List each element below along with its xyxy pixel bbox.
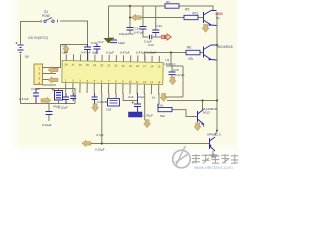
- svg-text:LM4610: LM4610: [164, 62, 176, 66]
- svg-text:R5: R5: [185, 8, 189, 12]
- svg-text:3µF: 3µF: [92, 51, 98, 55]
- schematic sheet background: [8, 0, 237, 154]
- capacitor C17: [94, 44, 101, 55]
- series capacitor y37: [150, 35, 152, 39]
- wire loop top: [166, 65, 183, 67]
- wire loop right: [182, 66, 184, 97]
- svg-text:0.1µF: 0.1µF: [106, 51, 114, 55]
- svg-text:C16: C16: [128, 95, 134, 99]
- svg-text:0.022B: 0.022B: [97, 100, 107, 104]
- wire P1 pin4: [43, 84, 57, 86]
- svg-text:4.47µF: 4.47µF: [81, 51, 91, 55]
- svg-text:R14: R14: [157, 104, 163, 108]
- port arrow IN1: [48, 67, 58, 73]
- svg-text:C17: C17: [98, 40, 104, 44]
- transistor Q3: [198, 110, 204, 125]
- wire Q3 emitter down: [203, 124, 205, 127]
- svg-text:1.47µF: 1.47µF: [19, 97, 29, 101]
- port arrow on mid rail: [132, 14, 142, 20]
- resistor R6: [186, 50, 200, 55]
- plus mark C2: [52, 88, 55, 91]
- node B junction: [170, 51, 172, 53]
- wire C14a lower lead: [129, 30, 131, 33]
- svg-text:0.47µF: 0.47µF: [120, 51, 130, 55]
- svg-text:C12: C12: [157, 24, 163, 28]
- port arrow bottom-left: [41, 97, 51, 103]
- wire P1 pin3: [43, 79, 59, 81]
- svg-text:47k: 47k: [188, 57, 194, 61]
- ground wing above IC: [104, 38, 114, 44]
- capacitor C18: [169, 72, 176, 75]
- wire row y37 left: [143, 29, 149, 37]
- junction rail row2: [216, 44, 218, 46]
- capacitor C4b: [70, 93, 76, 101]
- wire mid rail y17.5: [130, 17, 184, 19]
- wire node B down: [170, 53, 172, 67]
- svg-text:51k: 51k: [160, 114, 165, 118]
- capacitor C3: [46, 112, 53, 115]
- wire power drop x108: [108, 6, 110, 38]
- svg-text:0.47µF: 0.47µF: [175, 73, 185, 77]
- wire row2 pin12 to R6: [145, 52, 186, 54]
- capacitor C5: [92, 93, 98, 104]
- wire drop x143: [142, 6, 144, 27]
- capacitor C14a: [127, 28, 134, 31]
- svg-text:9A: 9A: [216, 16, 220, 20]
- svg-text:C10: C10: [91, 41, 97, 45]
- svg-text:47Ω: 47Ω: [192, 12, 199, 16]
- svg-text:1µF: 1µF: [62, 51, 68, 55]
- resistor R5: [184, 15, 198, 19]
- junction rail bottom: [216, 130, 218, 132]
- svg-text:0.47µF 0.22µF: 0.47µF 0.22µF: [136, 51, 156, 55]
- wire C2 bottom lead: [58, 100, 60, 104]
- svg-text:0.22µF: 0.22µF: [42, 123, 52, 127]
- wire switch to pin25 drop: [60, 21, 88, 44]
- wire right rail: [215, 12, 217, 135]
- IC pin stubs top: [66, 54, 159, 62]
- wire C18 lower lead: [171, 76, 173, 79]
- wire C12 lower lead: [155, 33, 157, 38]
- capacitor C1 bottom-left: [33, 89, 39, 104]
- port arrow up at pin28 net: [63, 45, 70, 53]
- junction rail x130: [129, 5, 131, 7]
- wire bottom-left loop top: [36, 89, 75, 104]
- resistor R14: [158, 108, 172, 112]
- wire battery top to switch: [21, 22, 41, 45]
- ground marks Q4: [209, 155, 217, 157]
- junction collector row: [201, 99, 203, 101]
- watermark characters: [192, 154, 238, 163]
- svg-text:0.22µF: 0.22µF: [58, 106, 68, 110]
- junction midrail x130: [129, 16, 131, 18]
- svg-text:4.7µF: 4.7µF: [96, 133, 104, 137]
- svg-text:103: 103: [106, 108, 111, 112]
- wire pin6 down to bus: [101, 93, 103, 144]
- IC pin stubs bottom: [66, 83, 159, 95]
- wire P1 pin1 to IC: [43, 45, 88, 68]
- svg-text:10µF: 10µF: [118, 41, 125, 45]
- svg-text:9013: 9013: [203, 111, 210, 115]
- svg-text:C18: C18: [173, 68, 179, 72]
- port arrow bus left end: [82, 140, 91, 146]
- wire bottom long bus: [85, 143, 209, 145]
- svg-text:100µF/25V: 100µF/25V: [119, 32, 134, 36]
- capacitor C4 below IC: [63, 93, 69, 104]
- wire R14 to Q3 base: [172, 110, 198, 117]
- transistor Q4 9012: [210, 137, 216, 151]
- electrolytic C2: [55, 91, 63, 101]
- wire collector feed row: [167, 100, 217, 102]
- svg-text:1k: 1k: [152, 96, 156, 100]
- ground arrow below IC left: [92, 104, 99, 112]
- svg-text:C9: C9: [62, 44, 66, 48]
- wire C3 lower lead: [48, 115, 50, 122]
- transistor Q2 9014: [204, 45, 217, 60]
- capacitor C15 x143: [140, 27, 147, 30]
- op IC U1 body: [62, 54, 176, 95]
- wire row y37 right: [153, 36, 162, 38]
- pin numbers bottom row: [65, 78, 161, 84]
- capacitor C10 above IC: [84, 44, 91, 61]
- capacitor C19 x113: [110, 40, 117, 43]
- ground arrow mid2: [144, 120, 151, 128]
- wire loop bottom: [163, 96, 183, 98]
- wire drop x155: [155, 6, 157, 30]
- wire R6 to Q2: [200, 52, 204, 54]
- svg-text:POW: POW: [42, 14, 50, 18]
- power arrow below Q1: [202, 24, 209, 32]
- svg-text:R6: R6: [187, 46, 191, 50]
- ground arrow below C18: [169, 77, 176, 85]
- switch S1: [41, 18, 58, 23]
- wire drop x130: [129, 6, 131, 28]
- polarity mark: [163, 35, 167, 39]
- port arrow IN2: [48, 77, 58, 83]
- wire R5 to Q1: [198, 17, 204, 19]
- transistor Q1 8550: [204, 11, 217, 26]
- junction bus pin6: [101, 142, 103, 144]
- wire pin9 branch: [123, 93, 137, 101]
- capacitor C12 x155: [152, 30, 159, 33]
- svg-text:9014/9018: 9014/9018: [218, 45, 233, 49]
- svg-text:0.47µF: 0.47µF: [134, 31, 144, 35]
- junction rail row: [216, 99, 218, 101]
- wire C18 upper lead: [171, 66, 173, 72]
- battery GB: [18, 45, 24, 53]
- connector P1 CON4: [34, 64, 43, 85]
- watermark logo ring: [173, 146, 191, 168]
- wire C6 top leads: [109, 93, 116, 99]
- wire C2 top lead: [58, 89, 60, 91]
- port arrow red right: [162, 34, 172, 40]
- wire P1 pin2: [43, 73, 57, 75]
- wire C3 upper lead: [48, 104, 50, 112]
- wire pin11 down: [144, 93, 146, 120]
- wire Q4 emitter down: [212, 151, 214, 155]
- wire Q3 collector up: [202, 101, 204, 110]
- wire top rail y6: [109, 6, 214, 11]
- electrolytic C8 box: [129, 112, 143, 117]
- plus mark C7: [132, 101, 135, 103]
- svg-text:0.22µF: 0.22µF: [95, 148, 105, 152]
- svg-text:10µF: 10µF: [138, 95, 145, 99]
- wire pin14 down to R14: [158, 93, 159, 108]
- ground arrow loop end: [160, 94, 167, 102]
- capacitor C7 polarized: [134, 93, 141, 112]
- wire pin12 up: [144, 53, 146, 61]
- svg-text:R3: R3: [166, 0, 170, 4]
- pin numbers top row: [64, 63, 161, 69]
- capacitor C6 box: [108, 99, 120, 107]
- resistor R3 on top rail: [165, 4, 179, 8]
- wire battery bottom down: [21, 54, 76, 104]
- ground arrow q3: [194, 123, 201, 131]
- svg-text:CON4: CON4: [31, 87, 40, 91]
- svg-text:AP9012.A: AP9012.A: [207, 133, 222, 137]
- wire C19 link: [109, 38, 114, 40]
- svg-text:GB 9V(6F22): GB 9V(6F22): [28, 36, 48, 40]
- svg-text:www.elecfans.com: www.elecfans.com: [194, 165, 233, 170]
- svg-text:C12: C12: [148, 43, 154, 47]
- battery plus mark: [16, 42, 18, 44]
